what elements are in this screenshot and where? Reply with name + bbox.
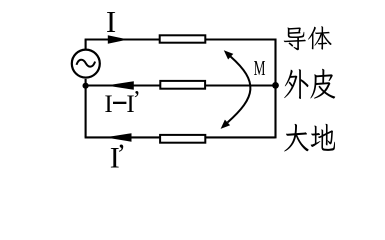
label: current I' (bottom) [110,139,126,174]
node: source-sheath junction (left dot) [83,83,89,89]
arrow: current I (pointing right, top wire) [108,35,128,43]
wire: middle sheath (horizontal) [86,84,276,86]
resistor: conductor impedance (top) [160,35,206,42]
svg-text:’: ’ [133,87,141,113]
svg-text:I: I [106,4,116,39]
arrow: current I' (pointing left, bottom wire) [105,133,132,142]
resistor: sheath impedance (middle) [160,81,205,89]
AC source (sine generator) [72,50,100,78]
arrow: current I-I' (pointing left, middle wire) [106,81,134,90]
label: 导体 (conductor) [284,26,332,50]
wire: bottom earth return (horizontal) [85,136,276,138]
label: M (mutual inductance) [254,56,266,80]
label: 大地 (earth) [284,124,335,152]
label: current I-I' (middle) [104,87,140,118]
mutual inductance arrow M (double-headed arc) [221,50,251,129]
wire: right vertical (cable far end) [274,39,276,139]
node: sheath-far-end junction (right dot) [272,82,279,89]
svg-text:M: M [254,56,266,80]
resistor: earth impedance (bottom) [160,135,205,143]
label: current I (top) [106,4,116,39]
svg-text:’: ’ [117,139,126,170]
wire: top conductor (horizontal) [85,38,276,40]
svg-text:I: I [104,91,112,118]
wire: left vertical from source bottom to earth [85,79,87,137]
wire: stub from source top to top conductor [85,40,87,50]
label: 外皮 (outer sheath) [284,69,335,99]
